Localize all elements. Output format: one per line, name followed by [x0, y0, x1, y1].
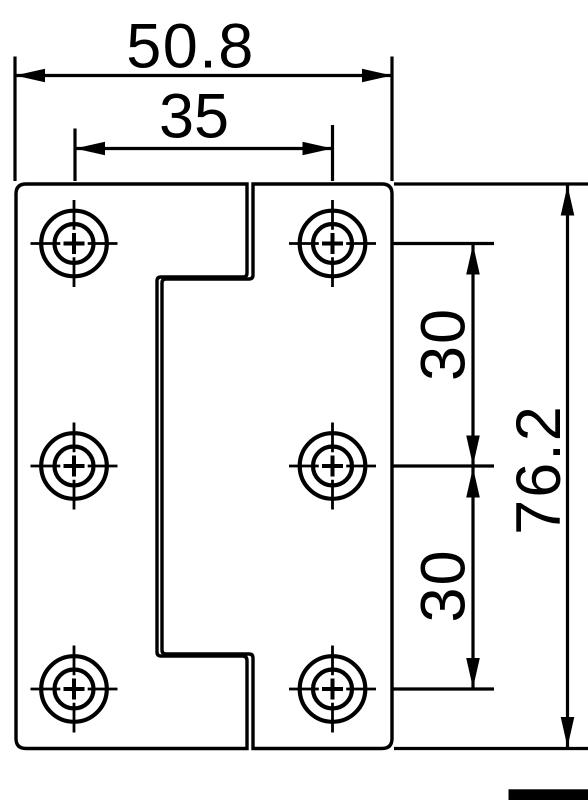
hole H5 bottom-left	[31, 646, 118, 733]
hole H3 middle-left	[31, 423, 118, 510]
hole H6 bottom-right	[289, 646, 376, 733]
extension line right of dimension 50.8	[390, 57, 393, 182]
arrow 76.2 bottom	[561, 717, 575, 747]
hole H1 top-left	[31, 200, 118, 287]
extension line hole row 3	[394, 687, 495, 690]
dimension line 30 upper and lower	[471, 245, 474, 689]
extension line right of dimension 35	[331, 125, 334, 181]
dimension line 35	[75, 147, 333, 150]
svg-text:50.8: 50.8	[126, 12, 255, 82]
extension line left of dimension 50.8	[13, 57, 16, 182]
hinge left leaf outline	[16, 184, 247, 749]
svg-text:76.2: 76.2	[504, 404, 574, 535]
svg-text:35: 35	[159, 82, 229, 152]
extension line left of dimension 35	[73, 129, 76, 182]
extension line top for dimension 76.2	[394, 182, 588, 185]
arrow 35 left	[75, 142, 105, 156]
extension line hole row 2	[394, 464, 495, 467]
arrow 30 middle upper	[466, 436, 480, 466]
dimension line 76.2	[566, 186, 569, 748]
dimension line 50.8	[15, 74, 392, 77]
hole H4 middle-right	[289, 423, 376, 510]
arrow 76.2 top	[561, 186, 575, 216]
black bar bottom-right	[509, 789, 588, 800]
extension line hole row 1	[394, 242, 495, 245]
hinge right leaf outline	[162, 184, 392, 749]
arrow 35 right	[303, 142, 333, 156]
svg-text:30: 30	[409, 307, 479, 381]
arrow 30 bottom	[466, 658, 480, 688]
arrow 50.8 left	[15, 69, 45, 83]
arrow 30 top	[466, 245, 480, 275]
svg-text:30: 30	[409, 548, 479, 622]
hole H2 top-right	[289, 200, 376, 287]
arrow 50.8 right	[362, 69, 392, 83]
extension line bottom for dimension 76.2	[394, 747, 588, 750]
arrow 30 middle lower	[466, 468, 480, 498]
